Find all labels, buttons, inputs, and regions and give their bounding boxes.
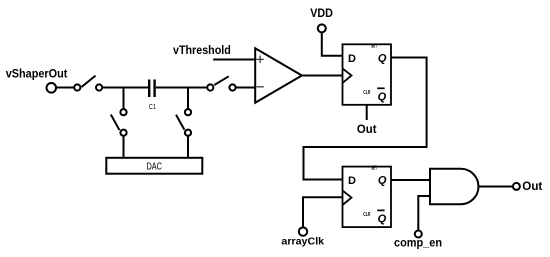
wire FF1 Q to FF2 D input <box>304 58 427 180</box>
svg-text:VDD: VDD <box>310 6 333 20</box>
DAC block <box>106 158 202 174</box>
terminal arrayClk <box>299 227 307 235</box>
switch S4 bottom contact <box>185 130 191 136</box>
switch S3 lever <box>111 115 120 131</box>
svg-text:Q: Q <box>378 174 387 186</box>
svg-text:D: D <box>348 175 356 187</box>
D flip-flop U2 <box>343 43 392 104</box>
switch S2 lever <box>214 76 228 85</box>
wire vShaperOut to switch S1 <box>56 87 74 89</box>
terminal VDD <box>318 24 326 32</box>
switch S1 right contact <box>96 84 102 90</box>
switch S1 lever <box>82 76 96 87</box>
terminal vShaperOut <box>47 83 57 93</box>
wire vThreshold to comparator non-inverting input <box>213 59 256 61</box>
wire FF1 Qbar to Out <box>366 105 368 120</box>
wire junction to left reset branch <box>123 88 125 110</box>
wire S3 to DAC <box>123 136 125 158</box>
wire AND gate output to Out <box>479 186 513 188</box>
svg-text:vShaperOut: vShaperOut <box>6 67 68 81</box>
svg-text:C1: C1 <box>149 102 156 111</box>
capacitor C1 <box>149 80 156 112</box>
svg-text:Out: Out <box>522 179 542 193</box>
wire C1 to switch S2 <box>156 87 207 89</box>
wire junction to right reset branch <box>187 88 189 110</box>
svg-text:arrayClk: arrayClk <box>281 236 324 248</box>
svg-text:CLR: CLR <box>363 90 370 96</box>
svg-text:Q: Q <box>378 52 387 64</box>
switch S4 lever <box>176 115 184 130</box>
svg-text:Q: Q <box>378 213 387 225</box>
wire S1 to capacitor C1 <box>102 87 148 89</box>
svg-text:vThreshold: vThreshold <box>173 43 231 57</box>
svg-text:DAC: DAC <box>146 161 162 172</box>
op-amp comparator U1 <box>255 48 302 102</box>
switch S3 bottom contact <box>120 130 126 136</box>
AND gate U4 <box>430 169 478 204</box>
switch S1 left contact <box>74 84 80 90</box>
switch S2 left contact <box>207 84 213 90</box>
wire S2 to comparator inverting input <box>236 87 256 89</box>
wire VDD to FF1 D input <box>322 32 343 55</box>
svg-text:SET: SET <box>371 166 377 172</box>
wire S4 to DAC <box>187 136 189 158</box>
svg-text:SET: SET <box>371 43 377 49</box>
svg-text:comp_en: comp_en <box>394 236 442 250</box>
wire comparator output to FF1 clock <box>302 75 343 77</box>
switch S3 top contact <box>120 109 126 115</box>
svg-text:Q: Q <box>378 91 387 103</box>
svg-text:Out: Out <box>357 122 377 136</box>
svg-text:CLR: CLR <box>363 212 370 218</box>
terminal comp_en <box>415 231 422 238</box>
terminal Out <box>513 183 520 190</box>
D flip-flop U3 <box>343 166 392 227</box>
switch S2 right contact <box>229 84 235 90</box>
wire arrayClk to FF2 clock <box>303 197 343 227</box>
wire FF2 Q to AND gate input A <box>391 179 430 181</box>
svg-text:D: D <box>348 53 356 65</box>
switch S4 top contact <box>185 109 191 115</box>
wire comp_en to AND gate input B <box>418 196 430 231</box>
